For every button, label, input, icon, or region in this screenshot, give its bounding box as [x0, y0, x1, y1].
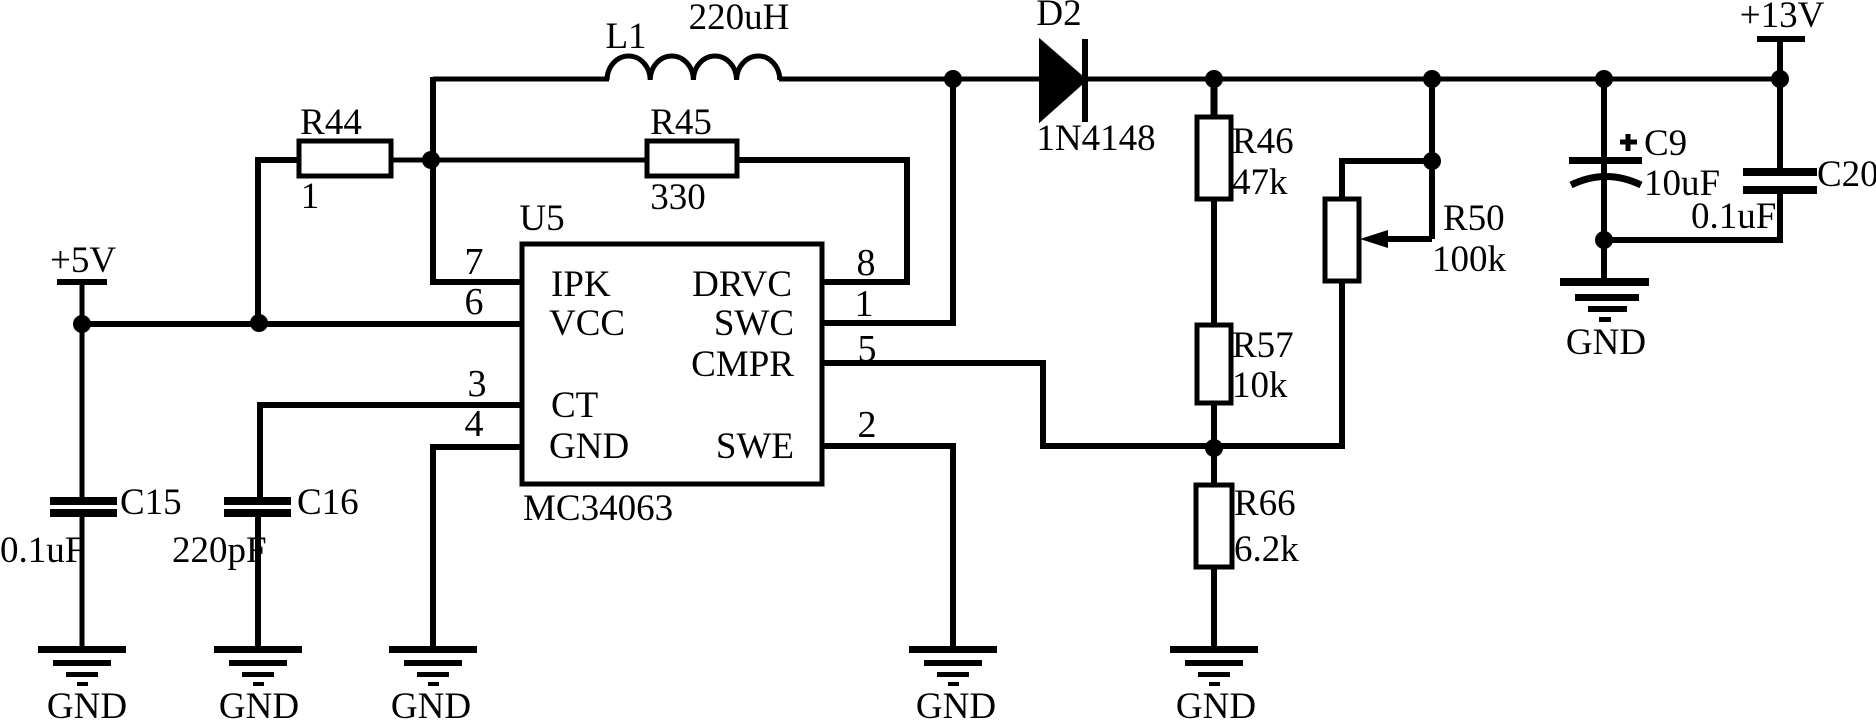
svg-text:0.1uF: 0.1uF	[1691, 196, 1776, 237]
svg-text:220uH: 220uH	[689, 0, 790, 38]
IC U5 box	[522, 244, 822, 484]
svg-text:CT: CT	[551, 385, 598, 426]
resistor R57	[1197, 325, 1231, 403]
potentiometer R50 body	[1325, 199, 1359, 281]
wire junction to R66	[1211, 450, 1217, 485]
wire R66 bottom lead	[1211, 567, 1217, 649]
wire pin 5 CMPR net	[822, 363, 1345, 446]
capacitor C15	[50, 497, 117, 517]
svg-text:D2: D2	[1036, 0, 1081, 34]
junction C9-C20 ground node	[1595, 231, 1613, 249]
svg-text:4: 4	[465, 403, 484, 445]
svg-text:CMPR: CMPR	[691, 344, 794, 385]
wire R50 branch vertical from top rail	[1429, 79, 1435, 239]
junction R46 node	[1205, 70, 1223, 88]
resistor R45	[647, 141, 737, 176]
svg-text:8: 8	[857, 242, 876, 284]
svg-text:VCC: VCC	[549, 303, 625, 344]
wire vertical from top rail to R44 junction and pin7	[430, 77, 436, 282]
svg-text:+5V: +5V	[50, 240, 116, 281]
svg-text:IPK: IPK	[551, 264, 611, 305]
wire R46 top lead	[1211, 79, 1218, 117]
svg-text:SWE: SWE	[716, 426, 794, 467]
svg-text:GND: GND	[1566, 322, 1646, 363]
svg-text:C16: C16	[297, 482, 359, 523]
capacitor C20	[1743, 168, 1817, 194]
svg-text:+13V: +13V	[1740, 0, 1825, 36]
svg-text:DRVC: DRVC	[692, 264, 792, 305]
junction feedback node	[1205, 439, 1223, 457]
svg-text:GND: GND	[391, 686, 471, 724]
wire C16 bottom	[255, 517, 261, 649]
svg-text:GND: GND	[549, 426, 629, 467]
svg-text:L1: L1	[605, 16, 646, 57]
ground symbol R66	[1170, 646, 1258, 686]
wire pin 7	[430, 279, 522, 285]
wire pin 2 SWE to ground	[822, 446, 953, 649]
wire R50 wiper	[1385, 236, 1432, 242]
potentiometer R50 wiper arrow	[1360, 230, 1388, 248]
svg-text:GND: GND	[219, 686, 299, 724]
resistor R66	[1196, 485, 1232, 567]
svg-text:100k: 100k	[1432, 239, 1507, 280]
svg-text:R45: R45	[650, 102, 712, 143]
svg-text:C15: C15	[120, 482, 182, 523]
ground symbol pin4	[389, 646, 477, 686]
wire C9 lead	[1601, 79, 1607, 281]
inductor L1	[607, 56, 780, 80]
svg-text:R57: R57	[1232, 325, 1294, 366]
resistor R46	[1197, 117, 1231, 199]
junction +13V node	[1771, 70, 1789, 88]
terminal +13V	[1757, 36, 1805, 42]
wire C15 bottom	[80, 517, 85, 649]
wire R44 left lead	[258, 160, 299, 322]
svg-text:47k: 47k	[1232, 162, 1288, 203]
ground symbol pin2	[909, 646, 997, 686]
svg-text:330: 330	[650, 177, 706, 218]
wire R45 right lead to pin 8	[737, 160, 907, 282]
wire +5V vertical	[80, 284, 85, 497]
wire pin 1 SWC to top rail	[822, 79, 953, 323]
svg-text:10k: 10k	[1232, 365, 1288, 406]
svg-text:GND: GND	[47, 686, 127, 724]
svg-text:1: 1	[301, 176, 320, 217]
svg-text:MC34063: MC34063	[523, 488, 673, 529]
svg-text:GND: GND	[916, 686, 996, 724]
svg-text:SWC: SWC	[714, 303, 794, 344]
ground symbol C15	[38, 646, 126, 686]
svg-text:6: 6	[465, 281, 484, 323]
junction C9 node	[1595, 70, 1613, 88]
wire R50 bottom lead	[1339, 281, 1345, 446]
capacitor C16	[224, 497, 291, 517]
svg-text:GND: GND	[1176, 686, 1256, 724]
wire VCC rail pin 6	[82, 321, 522, 327]
ground symbol C16	[214, 646, 302, 686]
junction R44 branch on rail	[250, 314, 268, 332]
svg-text:C20: C20	[1817, 154, 1876, 195]
wire pin 4 GND to ground	[433, 447, 522, 649]
svg-text:U5: U5	[519, 198, 564, 239]
svg-text:6.2k: 6.2k	[1234, 529, 1299, 570]
svg-text:1: 1	[855, 283, 874, 325]
ground symbol C9	[1560, 278, 1649, 322]
svg-text:5: 5	[858, 328, 877, 370]
svg-text:0.1uF: 0.1uF	[0, 530, 85, 571]
terminal +5V	[57, 279, 107, 285]
svg-text:R46: R46	[1232, 121, 1294, 162]
wire pin 3 CT to C16	[260, 405, 522, 497]
svg-text:R50: R50	[1443, 198, 1505, 239]
resistor R44	[299, 141, 391, 176]
junction +5V rail	[73, 315, 91, 333]
svg-text:3: 3	[468, 363, 487, 405]
wire top rail middle segment	[779, 77, 1041, 82]
svg-text:1N4148: 1N4148	[1036, 118, 1155, 159]
svg-text:2: 2	[858, 404, 877, 446]
wire C20 bottom to ground net	[1604, 193, 1780, 240]
wire R46 to R57	[1211, 199, 1217, 325]
wire top rail right segment	[1085, 77, 1780, 82]
svg-text:220pF: 220pF	[172, 530, 267, 571]
junction R50 branch node	[1423, 70, 1441, 88]
svg-text:7: 7	[465, 241, 484, 283]
capacitor C9 electrolytic	[1569, 134, 1642, 185]
junction R50 top node	[1423, 152, 1441, 170]
diode D2	[1040, 40, 1086, 121]
wire R50 top lead	[1342, 161, 1432, 199]
junction R44-R45 node	[422, 151, 440, 169]
diode D2 cathode bar	[1082, 39, 1088, 122]
svg-text:R66: R66	[1234, 483, 1296, 524]
junction D2 anode node	[944, 70, 962, 88]
wire R44 to R45	[391, 158, 647, 163]
wire +13V vertical	[1777, 42, 1783, 170]
wire R57 to junction	[1211, 403, 1217, 450]
svg-text:C9: C9	[1644, 123, 1687, 164]
svg-text:R44: R44	[300, 102, 362, 143]
wire top rail left segment	[433, 77, 609, 82]
